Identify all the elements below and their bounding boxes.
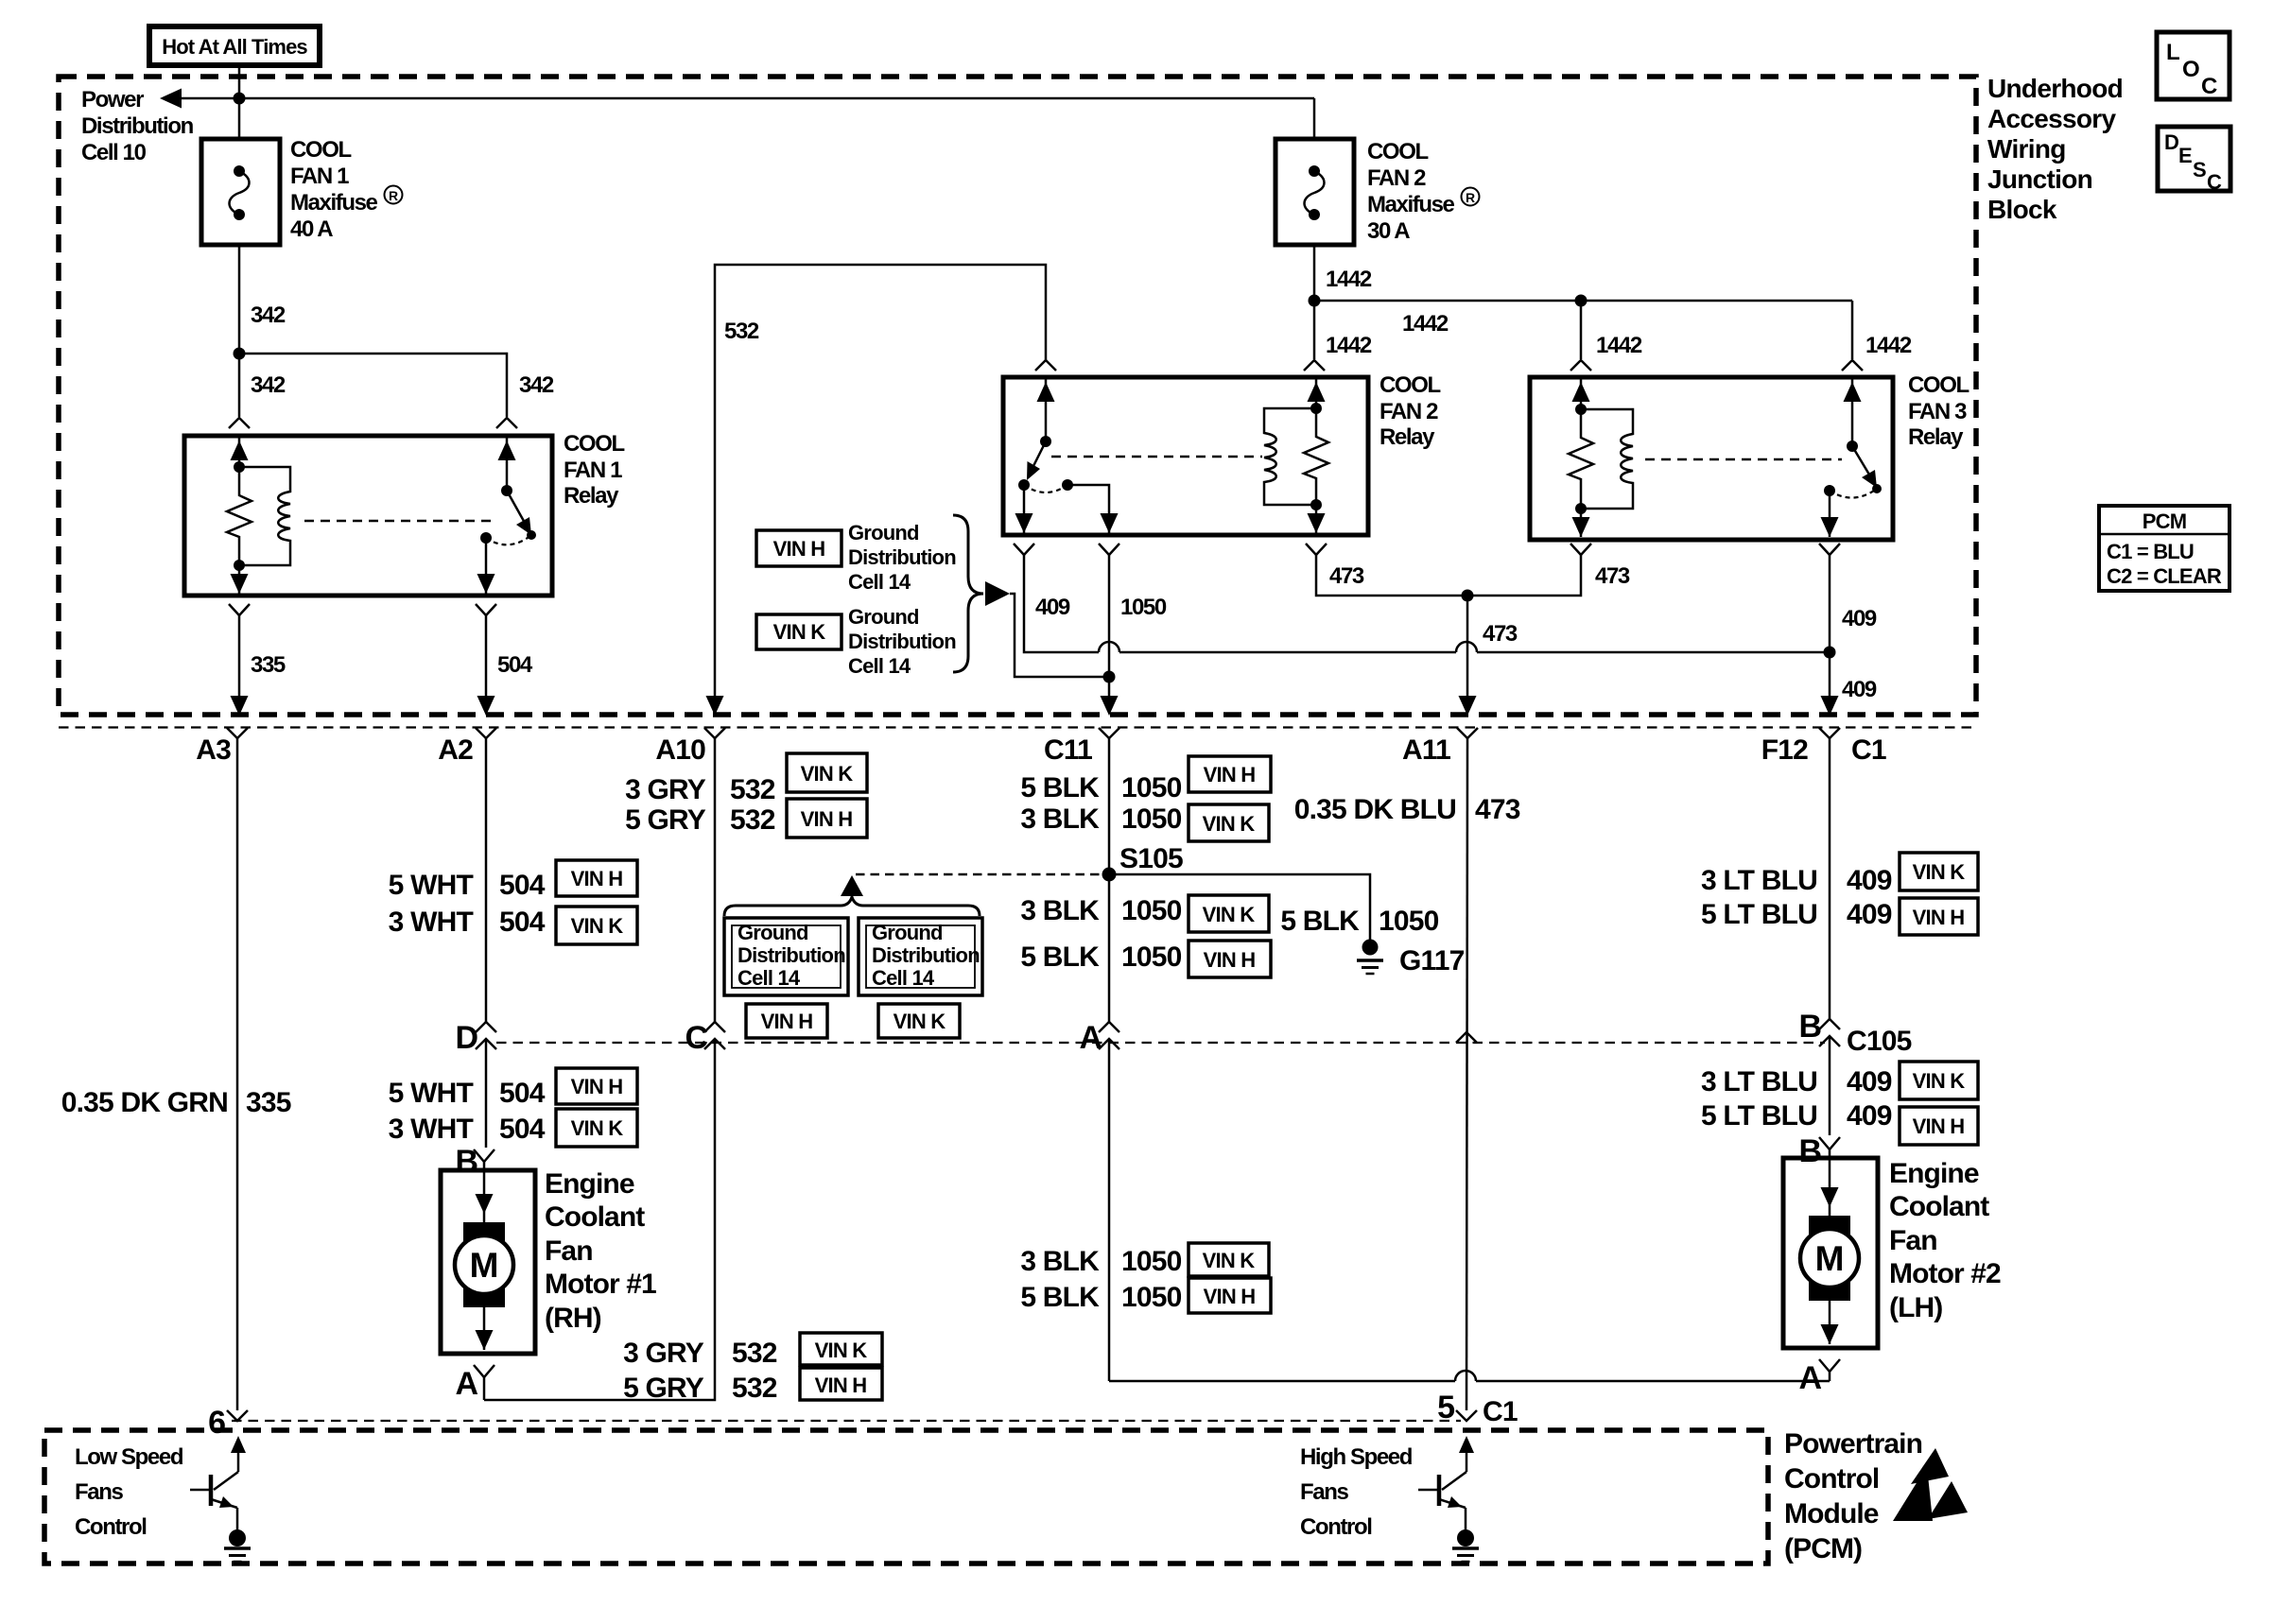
wire 409 hop over 1050	[1099, 642, 1119, 652]
relay2 coil pin wire with male arrow	[1308, 377, 1326, 408]
label 3 GRY 532 VIN K bottom	[623, 1333, 882, 1369]
relay2 switch contact dot left	[1018, 479, 1030, 491]
svg-text:1442: 1442	[1326, 333, 1372, 358]
svg-text:Fans: Fans	[75, 1479, 123, 1505]
inductor relay3 coil winding	[1581, 409, 1633, 509]
label Powertrain Control Module (PCM)	[1784, 1428, 1922, 1564]
motor M2 Engine Coolant Fan Motor #2 box	[1783, 1149, 1878, 1348]
PCM connector legend box (C1=BLU C2=CLEAR)	[2099, 506, 2230, 591]
svg-text:5 WHT: 5 WHT	[389, 870, 474, 901]
inductor relay1 coil winding	[239, 467, 290, 565]
relay3 coil bottom node dot	[1575, 503, 1587, 514]
relay2 switch common pin wire with male arrow	[1037, 377, 1055, 441]
connector C105 pin A double chevron	[1099, 1022, 1119, 1049]
label 0.35 DK BLU 473	[1294, 794, 1520, 825]
svg-text:C1: C1	[1851, 734, 1886, 766]
svg-text:3 WHT: 3 WHT	[389, 1114, 474, 1145]
svg-text:R: R	[389, 188, 398, 203]
svg-text:3 BLK: 3 BLK	[1020, 803, 1100, 835]
relay1 coil bottom node dot	[234, 560, 245, 571]
svg-text:E: E	[2178, 144, 2192, 167]
svg-text:C: C	[2201, 74, 2217, 99]
svg-text:1050: 1050	[1121, 895, 1182, 926]
relay1 switch pivot dot	[501, 485, 512, 496]
svg-text:A: A	[455, 1366, 477, 1402]
label 3 GRY 532 VIN K upper	[625, 753, 867, 805]
connector chevron pin 5	[1456, 1410, 1477, 1421]
svg-text:COOL: COOL	[1379, 372, 1440, 398]
arrow A10 exit	[706, 696, 724, 716]
svg-text:409: 409	[1847, 1066, 1892, 1097]
svg-text:FAN 3: FAN 3	[1908, 399, 1967, 424]
svg-text:409: 409	[1842, 606, 1877, 631]
label COOL FAN 1 Maxifuse 40 A	[290, 137, 403, 242]
svg-text:1050: 1050	[1121, 1282, 1182, 1313]
wire 1442 distribution bus	[1314, 300, 1852, 302]
label 5 BLK 1050 VIN H upper	[1020, 756, 1271, 803]
connector chevron below relay3 switch 409	[1819, 544, 1840, 555]
relay1 switch common pin wire with male arrow	[498, 436, 516, 491]
wire 335 to PCM pin 6	[236, 738, 239, 1410]
svg-text:C: C	[2207, 170, 2222, 194]
label 3 BLK 1050 VIN K mid	[1020, 895, 1269, 932]
svg-text:5 BLK: 5 BLK	[1020, 942, 1100, 973]
svg-text:5 BLK: 5 BLK	[1020, 772, 1100, 803]
svg-text:1442: 1442	[1596, 333, 1642, 358]
svg-text:VIN K: VIN K	[1913, 860, 1966, 884]
over brace for ground distribution boxes	[724, 897, 980, 916]
svg-text:409: 409	[1847, 1100, 1892, 1132]
svg-text:VIN H: VIN H	[815, 1373, 867, 1397]
svg-text:VIN K: VIN K	[1203, 812, 1256, 836]
label 5 GRY 532 VIN H bottom	[623, 1368, 882, 1404]
label Power Distribution Cell 10	[81, 87, 194, 165]
connector chevron below relay2 1050 output	[1099, 544, 1119, 555]
svg-text:G117: G117	[1399, 945, 1465, 976]
ground at high speed transistor emitter	[1452, 1529, 1479, 1562]
arrow A11 exit	[1459, 696, 1477, 716]
wire 473 merged to A11	[1466, 596, 1469, 711]
relay2 coil bottom node dot	[1310, 499, 1322, 510]
arrow F12 exit	[1821, 696, 1839, 716]
svg-text:O: O	[2182, 57, 2199, 82]
relay1 switch contact dot	[480, 532, 492, 544]
svg-text:M: M	[470, 1246, 499, 1285]
connector C105 pin D double chevron	[476, 1022, 496, 1049]
svg-text:L: L	[2166, 40, 2179, 65]
transistor Q high speed fans control	[1418, 1436, 1474, 1530]
wire 342 to relay 1 coil	[238, 354, 241, 417]
node 473 merge junction dot	[1462, 590, 1474, 602]
node 342 branch junction dot	[234, 348, 246, 360]
connector chevron relay3 coil pin	[1570, 360, 1591, 371]
VIN H box under ground distribution	[746, 1004, 827, 1038]
relay2 actuation dashed link	[1051, 456, 1262, 458]
connector chevron A3	[227, 728, 248, 738]
connector interface thin dashed line under junction block	[59, 726, 1976, 728]
relay3 coil pin wire with male arrow	[1572, 377, 1590, 409]
svg-text:504: 504	[499, 1078, 546, 1109]
svg-text:VIN K: VIN K	[571, 914, 624, 938]
svg-text:VIN K: VIN K	[1203, 1249, 1256, 1272]
svg-text:COOL: COOL	[564, 431, 624, 457]
resistor relay3 internal	[1569, 409, 1593, 509]
svg-text:Motor #2: Motor #2	[1889, 1258, 2001, 1289]
svg-text:Engine: Engine	[1889, 1158, 1979, 1189]
svg-text:Control: Control	[1300, 1514, 1372, 1540]
svg-text:342: 342	[251, 302, 286, 328]
svg-text:0.35 DK GRN: 0.35 DK GRN	[61, 1087, 228, 1118]
svg-text:Distribution: Distribution	[872, 943, 980, 967]
svg-text:Fan: Fan	[1889, 1225, 1937, 1256]
label COOL FAN 2 Relay	[1379, 372, 1440, 450]
relay3 switch contact dot	[1824, 485, 1835, 496]
svg-text:D: D	[455, 1020, 477, 1056]
svg-text:Ground: Ground	[737, 921, 808, 944]
Powertrain Control Module dashed box	[44, 1430, 1768, 1564]
power feed bus wire	[170, 97, 1314, 100]
connector chevron motor2 pin A	[1819, 1359, 1840, 1372]
svg-text:F12: F12	[1761, 734, 1808, 766]
label 3 LT BLU 409 VIN K upper	[1701, 853, 1978, 896]
relay1 coil pin wire with male arrow	[231, 436, 249, 467]
relay3 coil output wire with male arrow	[1572, 509, 1590, 537]
svg-text:504: 504	[499, 870, 546, 901]
wire 532 junction block to C105 pin C	[714, 738, 717, 1022]
arrow A3 exit	[231, 696, 249, 716]
label 5 WHT 504 VIN H lower	[389, 1068, 637, 1109]
svg-text:3 GRY: 3 GRY	[623, 1338, 704, 1369]
svg-text:473: 473	[1483, 621, 1518, 647]
svg-text:6: 6	[208, 1405, 225, 1441]
svg-text:Distribution: Distribution	[848, 630, 956, 653]
svg-text:VIN K: VIN K	[801, 762, 854, 786]
svg-text:473: 473	[1595, 563, 1630, 589]
relay2 coil output wire with male arrow	[1308, 505, 1326, 533]
label 3 WHT 504 VIN K lower	[389, 1109, 637, 1147]
inductor relay2 coil winding	[1264, 408, 1316, 505]
svg-text:VIN K: VIN K	[571, 1116, 624, 1140]
connector chevron 473 wire at C105	[1456, 1032, 1477, 1043]
wire motor2 A to 1050 run	[1829, 1372, 1831, 1381]
connector chevron relay2 coil pin	[1304, 360, 1325, 371]
wire 1050 S105 to G117	[1109, 874, 1370, 942]
svg-text:1442: 1442	[1326, 267, 1372, 292]
label COOL FAN 2 Maxifuse 30 A	[1367, 139, 1480, 244]
wire 409 from relay2 switch	[1024, 555, 1099, 652]
svg-text:COOL: COOL	[1908, 372, 1969, 398]
svg-text:VIN K: VIN K	[815, 1339, 868, 1362]
svg-text:40 A: 40 A	[290, 216, 333, 242]
svg-text:409: 409	[1847, 899, 1892, 930]
svg-text:A11: A11	[1402, 734, 1450, 766]
wire 409 F12 to C105 pin B	[1829, 738, 1831, 1019]
svg-text:FAN 1: FAN 1	[290, 164, 349, 189]
VIN K callout box	[756, 614, 842, 649]
wire motor1 A to 532	[483, 1377, 486, 1400]
svg-text:473: 473	[1475, 794, 1520, 825]
fuse COOL FAN 1 Maxifuse 40 A	[201, 139, 280, 245]
label 3 WHT 504 VIN K upper	[389, 907, 637, 944]
svg-text:COOL: COOL	[290, 137, 351, 163]
wire 1442 drop to relay3 coil	[1580, 301, 1583, 359]
svg-text:Coolant: Coolant	[545, 1201, 645, 1233]
relay1 actuation dashed link	[304, 520, 497, 523]
ground distribution pointer triangle up	[841, 875, 863, 896]
relay3 actuation dashed link	[1645, 458, 1842, 461]
svg-text:Wiring: Wiring	[1987, 134, 2066, 164]
label Low Speed Fans Control	[75, 1444, 183, 1540]
Underhood Accessory Wiring Junction Block dashed boundary box	[59, 77, 1976, 715]
arrow to Power Distribution	[160, 89, 182, 109]
VIN H callout box	[756, 530, 842, 566]
wire 1442 from fuse 2	[1313, 245, 1316, 301]
svg-text:C1 = BLU: C1 = BLU	[2107, 540, 2194, 563]
svg-text:5 LT BLU: 5 LT BLU	[1701, 899, 1817, 930]
label 3 LT BLU 409 VIN K lower	[1701, 1062, 1978, 1099]
label 5 LT BLU 409 VIN H lower	[1701, 1100, 1978, 1145]
svg-text:(PCM): (PCM)	[1784, 1533, 1862, 1564]
relay K3 COOL FAN 3 Relay box	[1530, 377, 1893, 540]
svg-text:S105: S105	[1119, 843, 1183, 874]
svg-text:Underhood: Underhood	[1987, 74, 2123, 103]
callout wire to 1050 node	[1010, 594, 1109, 677]
svg-text:VIN H: VIN H	[773, 537, 825, 561]
svg-text:VIN H: VIN H	[1204, 763, 1256, 786]
label Engine Coolant Fan Motor #2 (LH)	[1889, 1158, 2001, 1323]
svg-text:C1: C1	[1483, 1396, 1518, 1427]
connector C105 pin B double chevron	[1819, 1019, 1840, 1046]
svg-text:VIN K: VIN K	[773, 620, 826, 644]
svg-text:VIN K: VIN K	[1913, 1069, 1966, 1093]
svg-text:B: B	[455, 1144, 477, 1180]
svg-text:Fan: Fan	[545, 1235, 593, 1267]
svg-text:1050: 1050	[1121, 803, 1182, 835]
relay3 switch pivot dot	[1847, 441, 1858, 452]
svg-text:(RH): (RH)	[545, 1303, 601, 1334]
resistor relay1 internal	[227, 467, 252, 565]
arrow C11 exit	[1101, 696, 1119, 716]
PCM thin dashed connector line (pins 6 and 5)	[232, 1420, 1461, 1422]
svg-text:Junction: Junction	[1987, 164, 2092, 194]
ground G117 symbol	[1357, 940, 1383, 975]
svg-text:(LH): (LH)	[1889, 1292, 1942, 1323]
svg-text:C11: C11	[1044, 734, 1092, 766]
callout pointer triangle	[985, 581, 1010, 606]
svg-text:D: D	[2164, 130, 2178, 154]
wire 1050 C11 to S105	[1108, 738, 1111, 874]
relay2 switch travel dashed arc	[1024, 485, 1067, 492]
svg-text:FAN 1: FAN 1	[564, 458, 622, 483]
svg-text:5 WHT: 5 WHT	[389, 1078, 474, 1109]
relay1 switch output wire with male arrow	[477, 538, 495, 594]
svg-text:VIN H: VIN H	[1204, 1285, 1256, 1308]
connector chevron relay1 coil pin	[229, 418, 250, 428]
relay3 switch output wire with male arrow	[1821, 491, 1839, 537]
svg-text:Relay: Relay	[1908, 424, 1964, 450]
svg-text:Engine: Engine	[545, 1168, 634, 1200]
svg-text:504: 504	[499, 1114, 546, 1145]
svg-text:VIN H: VIN H	[761, 1010, 813, 1033]
node 1050 callout junction dot	[1103, 671, 1116, 683]
wire 409 run to relay3 output	[1119, 651, 1456, 654]
connector chevron relay3 switch pin	[1842, 360, 1863, 371]
svg-text:B: B	[1798, 1009, 1821, 1045]
svg-text:3 WHT: 3 WHT	[389, 907, 474, 938]
svg-text:Power: Power	[81, 87, 144, 112]
svg-text:532: 532	[724, 319, 759, 344]
label 5 WHT 504 VIN H upper	[389, 860, 637, 901]
wire 342 from fuse 1	[238, 245, 241, 354]
label COOL FAN 3 Relay	[1908, 372, 1969, 450]
svg-text:Maxifuse: Maxifuse	[290, 190, 378, 216]
DESC legend box	[2158, 127, 2230, 194]
wire 504 from C105 D to motor1 B	[485, 1039, 488, 1148]
C105 connector dashed line	[496, 1042, 1825, 1044]
svg-text:1050: 1050	[1121, 942, 1182, 973]
node 409 junction dot	[1824, 647, 1836, 659]
svg-text:Coolant: Coolant	[1889, 1191, 1989, 1222]
svg-text:B: B	[1798, 1133, 1821, 1169]
wire 473 from relay2 coil	[1316, 555, 1467, 596]
connector chevron below relay1 switch	[476, 604, 496, 615]
svg-text:504: 504	[497, 652, 533, 678]
svg-text:0.35 DK BLU: 0.35 DK BLU	[1294, 794, 1456, 825]
connector chevron below relay2 coil 473	[1306, 544, 1327, 555]
wire 504 relay1 to A2	[485, 615, 488, 711]
arrow A2 exit	[477, 696, 495, 716]
svg-text:473: 473	[1329, 563, 1364, 589]
svg-text:5 GRY: 5 GRY	[625, 804, 706, 836]
wire 1050 from C105 A to motor2 A run	[1108, 1039, 1111, 1381]
svg-text:M: M	[1815, 1239, 1845, 1278]
Hot At All Times label box	[149, 26, 320, 65]
svg-text:Distribution: Distribution	[848, 545, 956, 569]
wire 409 C105 B to motor2 B	[1829, 1036, 1831, 1135]
svg-text:409: 409	[1842, 677, 1877, 702]
label Ground Distribution Cell 14 (VIN H)	[848, 521, 956, 594]
curly brace for ground distribution callout	[953, 515, 983, 672]
relay1 coil top node dot	[234, 461, 245, 473]
svg-text:335: 335	[246, 1087, 291, 1118]
svg-text:409: 409	[1847, 865, 1892, 896]
fuse COOL FAN 2 Maxifuse 30 A	[1275, 98, 1354, 245]
resistor relay2 internal	[1304, 408, 1328, 505]
relay2 switch pivot dot	[1040, 436, 1051, 447]
wire 1050 S105 down to C105 pin A	[1108, 874, 1111, 1022]
svg-text:Ground: Ground	[848, 521, 919, 544]
relay1 switch travel dashed arc	[486, 535, 531, 544]
svg-text:30 A: 30 A	[1367, 218, 1410, 244]
connector chevron A10	[704, 728, 725, 738]
wire 335 relay1 to A3	[238, 615, 241, 711]
svg-text:Distribution: Distribution	[81, 113, 194, 139]
svg-text:C2 = CLEAR: C2 = CLEAR	[2107, 564, 2222, 588]
VIN K box under ground distribution	[878, 1004, 960, 1038]
svg-text:Distribution: Distribution	[737, 943, 845, 967]
svg-text:Accessory: Accessory	[1987, 104, 2116, 133]
relay2 switch contact dot right	[1062, 479, 1073, 491]
svg-text:VIN H: VIN H	[1913, 906, 1965, 929]
svg-text:R: R	[1466, 190, 1475, 205]
relay2 switch output 409 wire with male arrow	[1015, 485, 1033, 533]
ground at low speed transistor emitter	[224, 1529, 251, 1562]
label 5 BLK 1050 at G117	[1280, 906, 1438, 937]
connector chevron A11	[1457, 728, 1478, 738]
connector C105 pin C double chevron	[704, 1022, 725, 1049]
svg-text:A3: A3	[196, 734, 231, 766]
svg-text:Cell 14: Cell 14	[872, 966, 935, 990]
svg-text:3 LT BLU: 3 LT BLU	[1701, 1066, 1817, 1097]
connector chevron relay1 switch pin	[496, 418, 517, 428]
svg-text:C105: C105	[1847, 1026, 1912, 1057]
svg-text:Control: Control	[1784, 1463, 1879, 1494]
svg-text:PCM: PCM	[2143, 510, 2187, 533]
svg-text:Module: Module	[1784, 1498, 1879, 1529]
svg-text:Cell 14: Cell 14	[848, 654, 911, 678]
connector chevron F12	[1819, 728, 1840, 738]
svg-text:1442: 1442	[1865, 333, 1912, 358]
connector chevron C11	[1099, 728, 1119, 738]
connector chevron below relay3 coil 473	[1570, 544, 1591, 555]
svg-text:1050: 1050	[1121, 1246, 1182, 1277]
relay3 coil top node dot	[1575, 404, 1587, 415]
svg-text:342: 342	[519, 372, 554, 398]
svg-text:Ground: Ground	[872, 921, 943, 944]
svg-text:VIN H: VIN H	[571, 1075, 623, 1098]
wire 473 from relay3 coil	[1467, 555, 1581, 596]
label Engine Coolant Fan Motor #1 (RH)	[545, 1168, 656, 1334]
svg-text:504: 504	[499, 907, 546, 938]
Ground Distribution Cell 14 double box (VIN K)	[859, 918, 982, 995]
relay3 switch blade	[1852, 446, 1882, 493]
svg-text:Powertrain: Powertrain	[1784, 1428, 1922, 1460]
svg-text:FAN 2: FAN 2	[1379, 399, 1438, 424]
svg-text:FAN 2: FAN 2	[1367, 165, 1426, 191]
svg-text:3 BLK: 3 BLK	[1020, 895, 1100, 926]
svg-text:S: S	[2193, 158, 2206, 181]
svg-text:High Speed: High Speed	[1300, 1444, 1413, 1470]
svg-text:A: A	[1079, 1020, 1102, 1056]
wire 532 from relay2 switch to A10	[715, 265, 1046, 711]
svg-text:Cell 14: Cell 14	[737, 966, 801, 990]
svg-text:Motor #1: Motor #1	[545, 1269, 656, 1300]
svg-text:335: 335	[251, 652, 286, 678]
svg-text:1050: 1050	[1120, 595, 1167, 620]
label 3 BLK 1050 VIN K upper	[1020, 803, 1269, 841]
connector chevron A2	[476, 728, 496, 738]
svg-text:Control: Control	[75, 1514, 147, 1540]
relay1 coil output wire with male arrow	[231, 565, 249, 594]
svg-text:VIN H: VIN H	[801, 807, 853, 831]
svg-text:5 GRY: 5 GRY	[623, 1373, 704, 1404]
svg-text:342: 342	[251, 372, 286, 398]
label 5 GRY 532 VIN H upper	[625, 799, 867, 838]
label Underhood Accessory Wiring Junction Block	[1987, 74, 2123, 224]
svg-text:Block: Block	[1987, 195, 2057, 224]
label COOL FAN 1 Relay	[564, 431, 624, 509]
LOC legend box	[2157, 32, 2230, 99]
wire 532 from C105 C to motor1 A corner	[484, 1039, 715, 1400]
svg-text:3 GRY: 3 GRY	[625, 774, 706, 805]
relay1 switch blade	[507, 491, 536, 540]
svg-text:Low Speed: Low Speed	[75, 1444, 183, 1470]
svg-text:3 LT BLU: 3 LT BLU	[1701, 865, 1817, 896]
svg-text:COOL: COOL	[1367, 139, 1428, 164]
svg-text:Maxifuse: Maxifuse	[1367, 192, 1455, 217]
splice S105 dot	[1102, 868, 1117, 882]
svg-text:Ground: Ground	[848, 605, 919, 629]
